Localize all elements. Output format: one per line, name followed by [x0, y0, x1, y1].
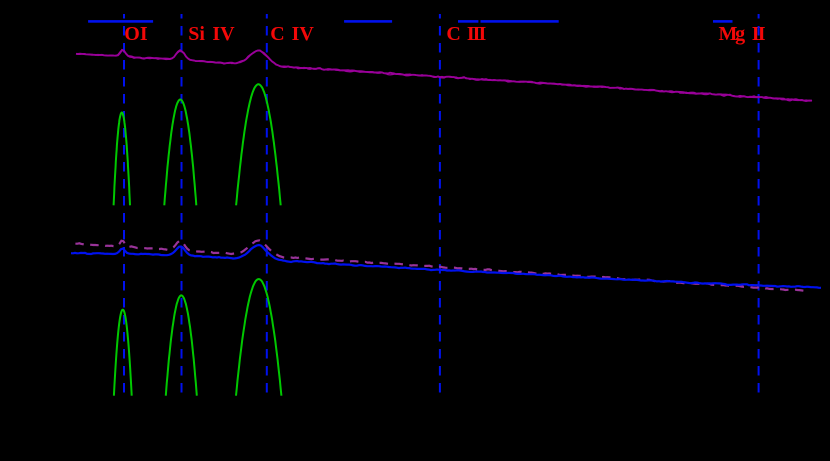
wavelength coverage bar 5 — [713, 20, 733, 23]
green line profile (bottom panel) — [114, 310, 132, 396]
svg-text:C: C — [270, 23, 284, 45]
top observed spectrum (magenta) — [76, 50, 812, 101]
green line profile (top panel) — [114, 113, 130, 206]
green line profile (top panel) — [236, 84, 281, 205]
top observed spectrum secondary stroke — [76, 50, 812, 101]
middle model spectrum (magenta dashed) — [75, 240, 805, 291]
svg-text:Si: Si — [188, 23, 205, 45]
vertical dashed line x=439.9 — [439, 14, 441, 396]
vertical dashed line x=181.5 — [181, 14, 183, 396]
green line profile (top panel) — [164, 100, 196, 206]
vertical dashed line x=124.0 — [123, 14, 125, 396]
wavelength coverage bar 4 — [481, 20, 559, 23]
svg-text:C: C — [446, 23, 460, 45]
svg-text:OI: OI — [124, 23, 148, 45]
vertical dashed line x=758.6 — [758, 14, 760, 396]
middle observed spectrum (blue) — [71, 245, 821, 288]
green line profile (bottom panel) — [236, 279, 281, 396]
wavelength coverage bar 1 — [88, 20, 153, 23]
svg-text:IV: IV — [292, 23, 315, 45]
wavelength coverage bar 2 — [344, 20, 392, 23]
svg-text:IV: IV — [212, 23, 235, 45]
svg-text:Mg: Mg — [719, 23, 746, 45]
svg-text:III: III — [467, 23, 487, 45]
vertical dashed line x=266.8 — [266, 14, 268, 396]
green line profile (bottom panel) — [166, 295, 197, 395]
wavelength coverage bar 3 — [458, 20, 478, 23]
